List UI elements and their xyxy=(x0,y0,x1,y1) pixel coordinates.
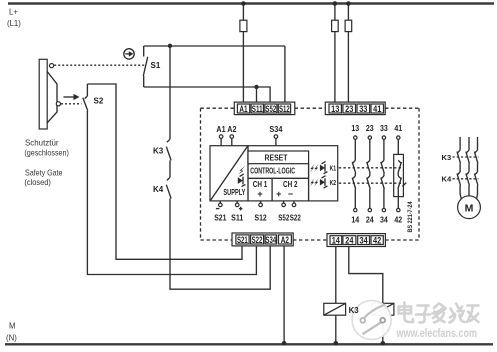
svg-text:23: 23 xyxy=(366,124,374,133)
svg-text:24: 24 xyxy=(366,215,374,224)
wire coil K4 to M rail xyxy=(382,315,384,343)
svg-text:CONTROL-LOGIC: CONTROL-LOGIC xyxy=(250,165,295,175)
node on rail (K4) xyxy=(381,341,386,346)
svg-text:Schutztür: Schutztür xyxy=(25,138,59,148)
svg-text:41: 41 xyxy=(373,104,381,114)
module pin A1 xyxy=(216,125,226,146)
node on rail (A2) xyxy=(282,341,287,346)
svg-text:33: 33 xyxy=(359,104,367,114)
svg-text:S1: S1 xyxy=(151,61,161,70)
safety relay module U1 xyxy=(210,146,338,201)
manual actuation symbol (circle with arrow) xyxy=(124,49,134,59)
svg-text:K3: K3 xyxy=(153,147,164,156)
svg-text:A1: A1 xyxy=(239,104,247,114)
relay coil K4 xyxy=(372,303,394,315)
relay coil K3 xyxy=(324,303,346,315)
svg-text:A2: A2 xyxy=(281,235,289,245)
wire S1 top to S12 xyxy=(144,45,285,47)
svg-text:Safety Gate: Safety Gate xyxy=(25,168,63,178)
relay K1 indicator row xyxy=(310,161,336,173)
node on rail (13) xyxy=(333,1,338,6)
wire L+ to 13 xyxy=(334,4,336,102)
output contact 33-34 xyxy=(380,124,388,224)
svg-text:K4: K4 xyxy=(442,175,452,184)
svg-text:S11: S11 xyxy=(252,104,263,114)
svg-text:K2: K2 xyxy=(330,178,337,187)
wires into motor xyxy=(460,185,477,198)
svg-text:CH 1: CH 1 xyxy=(253,180,268,189)
motor M1 xyxy=(458,196,481,219)
fuse F2 xyxy=(332,20,339,31)
svg-text:K3: K3 xyxy=(442,153,452,162)
svg-text:14: 14 xyxy=(332,235,341,245)
output contact 13-14 xyxy=(351,124,359,224)
wire S21 loop xyxy=(87,84,242,259)
svg-text:K4: K4 xyxy=(153,185,164,194)
svg-text:S22: S22 xyxy=(252,235,263,245)
svg-text:S52: S52 xyxy=(265,104,276,114)
svg-text:www.elecfans.com: www.elecfans.com xyxy=(396,326,477,340)
svg-text:14: 14 xyxy=(351,215,359,224)
mechanical linkage K1 row xyxy=(339,167,403,169)
contact K4 (NC feedback) xyxy=(166,177,171,198)
svg-text:41: 41 xyxy=(394,124,402,133)
svg-text:13: 13 xyxy=(351,124,359,133)
node junction S1/K3 branch xyxy=(168,44,172,48)
svg-text:+: + xyxy=(276,189,281,199)
wire L+ to A1 xyxy=(242,4,244,103)
watermark chinese characters (dian zi fa shao you) xyxy=(399,303,479,323)
watermark logo xyxy=(352,301,391,340)
linkage K3 xyxy=(453,156,479,158)
svg-text:24: 24 xyxy=(345,235,354,245)
logic box lines xyxy=(248,177,309,179)
svg-text:−: − xyxy=(288,189,293,199)
svg-text:BS 221-7-24: BS 221-7-24 xyxy=(407,201,414,232)
svg-text:(N): (N) xyxy=(6,334,17,343)
svg-text:33: 33 xyxy=(380,124,388,133)
wire jumper S11-S52 xyxy=(257,87,271,102)
fuse F1 xyxy=(240,20,247,31)
module pin S52 xyxy=(278,201,289,223)
module pin S34 xyxy=(269,125,283,146)
output contact 23-24 xyxy=(366,124,374,224)
contactor K3 contacts xyxy=(457,150,478,172)
safety gate door symbol xyxy=(39,59,60,129)
supply LED symbol xyxy=(238,174,246,187)
svg-text:S21: S21 xyxy=(237,235,248,245)
svg-text:34: 34 xyxy=(380,215,388,224)
contactor K4 contacts xyxy=(457,172,478,185)
svg-text:M: M xyxy=(465,202,474,214)
mechanical link door to S2 xyxy=(61,103,82,105)
switch S2 xyxy=(83,84,88,111)
RESET box xyxy=(248,151,309,164)
module pin S22 xyxy=(290,201,301,223)
mechanical linkage K2 row xyxy=(339,182,403,184)
svg-text:S22: S22 xyxy=(290,214,301,223)
svg-text:CH 2: CH 2 xyxy=(283,180,298,189)
node on rail (K3) xyxy=(334,341,339,346)
wire 24 to coil K4 xyxy=(349,246,383,303)
svg-text:S12: S12 xyxy=(279,104,290,114)
linkage arrow tick xyxy=(402,183,406,187)
wire coil K3 to M rail xyxy=(335,315,337,343)
terminal block A1 S11 S52 S12 xyxy=(234,102,294,115)
svg-text:M: M xyxy=(9,322,16,331)
svg-text:A1: A1 xyxy=(216,125,226,134)
wire to terminal S12 xyxy=(284,46,286,102)
node on rail (A1) xyxy=(241,1,246,6)
terminal block S21 S22 S34 A2 xyxy=(232,233,293,246)
supply diagonal xyxy=(210,146,247,200)
svg-text:(L1): (L1) xyxy=(7,19,21,28)
svg-text:13: 13 xyxy=(331,104,339,114)
wire S2 to S22 xyxy=(87,111,256,275)
wire K4 to S34 xyxy=(170,199,270,290)
svg-text:SUPPLY: SUPPLY xyxy=(223,187,245,197)
svg-text:RESET: RESET xyxy=(265,153,289,163)
module pin S11 xyxy=(231,201,244,223)
switch S1 xyxy=(143,46,147,87)
svg-text:S52: S52 xyxy=(278,214,289,223)
linkage K4 xyxy=(453,178,479,180)
svg-text:K3: K3 xyxy=(349,306,360,315)
node on rail (23) xyxy=(346,1,351,6)
svg-text:23: 23 xyxy=(345,104,353,114)
module pin A2 xyxy=(227,125,237,146)
module pin S12 xyxy=(255,201,268,223)
output contact 41-42 (NC) xyxy=(394,124,404,224)
terminal block 13 23 33 41 xyxy=(325,102,385,115)
wire A2 to M rail xyxy=(283,246,285,343)
svg-text:(geschlossen): (geschlossen) xyxy=(24,147,69,157)
motor branch phase wires xyxy=(460,137,477,150)
feedback branch wire from S1 top xyxy=(169,46,171,139)
relay K2 indicator row xyxy=(310,176,336,188)
svg-text:34: 34 xyxy=(360,235,369,245)
svg-text:A2: A2 xyxy=(227,125,237,134)
svg-text:42: 42 xyxy=(394,215,402,224)
svg-text:S11: S11 xyxy=(231,214,244,223)
svg-text:+: + xyxy=(257,189,262,199)
mechanical link door to S1 xyxy=(54,64,145,66)
wire S1 bottom to S11 xyxy=(144,86,257,88)
actuation arrow at S2 xyxy=(64,94,80,100)
wire to terminal S11 xyxy=(256,87,258,102)
contact K3 (NC feedback) xyxy=(166,139,171,177)
supply section divider xyxy=(247,146,249,201)
terminal block 14 24 34 42 xyxy=(327,234,385,247)
svg-text:42: 42 xyxy=(373,235,381,245)
svg-text:S34: S34 xyxy=(265,235,276,245)
power rail L+ xyxy=(8,2,494,4)
module pin S21 xyxy=(214,201,227,223)
svg-text:S34: S34 xyxy=(269,125,283,134)
svg-text:S21: S21 xyxy=(214,214,227,223)
node junction S11/S52 xyxy=(254,85,258,89)
wire 14 to coil K3 xyxy=(335,246,337,303)
power rail M xyxy=(5,343,493,345)
supply lightning symbol xyxy=(238,166,246,175)
fuse F3 xyxy=(345,20,352,31)
svg-text:S2: S2 xyxy=(94,96,104,105)
svg-text:L+: L+ xyxy=(9,8,18,17)
dashed device boundary box xyxy=(201,108,420,240)
svg-text:S12: S12 xyxy=(255,214,268,223)
svg-text:(closed): (closed) xyxy=(24,177,51,187)
wire L+ to 23 xyxy=(347,4,349,102)
svg-text:K1: K1 xyxy=(330,164,337,173)
